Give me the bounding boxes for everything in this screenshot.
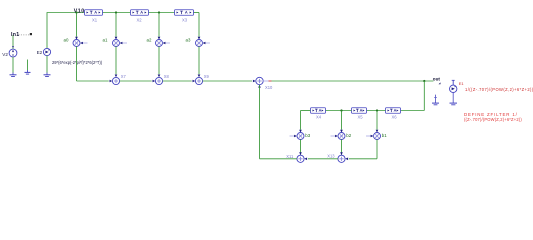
wire tap to multiplier a2	[158, 13, 160, 37]
summer X10	[253, 77, 272, 87]
svg-text:X7: X7	[121, 74, 127, 79]
svg-text:X2: X2	[137, 17, 143, 22]
value text of E2	[52, 60, 103, 65]
junction f1	[340, 109, 342, 111]
svg-text:X13: X13	[327, 153, 335, 158]
wire X8 to X9	[163, 80, 192, 82]
junction t3	[158, 11, 160, 13]
junction t1	[75, 11, 77, 13]
svg-text:a3: a3	[186, 38, 191, 43]
label X6	[392, 114, 398, 119]
svg-text:b1: b1	[382, 133, 387, 138]
label X5	[358, 114, 364, 119]
svg-text:X10: X10	[265, 85, 273, 90]
svg-text:X11: X11	[286, 154, 294, 159]
wire E2 to top rail	[46, 13, 48, 49]
svg-text:((Z-.707)/(POW(Z,2)+6*Z+2)): ((Z-.707)/(POW(Z,2)+6*Z+2))	[464, 117, 522, 122]
label X1	[92, 17, 98, 22]
label X2	[137, 17, 143, 22]
wire a0 to X7	[77, 47, 109, 82]
svg-text:X5: X5	[358, 114, 364, 119]
delay block X5	[352, 108, 367, 114]
wire a1 to X7 top	[115, 47, 117, 75]
ground near out	[432, 95, 439, 105]
wire tap to multiplier a1	[115, 13, 117, 37]
label b1	[382, 133, 387, 138]
svg-text:29*(6*exp(-2*pi*f)*2*6(2*T)): 29*(6*exp(-2*pi*f)*2*6(2*T))	[52, 60, 103, 65]
wire X11 to X10	[260, 85, 297, 159]
wire X4 to corner b3	[301, 111, 311, 130]
wire tap to b1	[376, 111, 378, 130]
svg-text:a2: a2	[147, 38, 152, 43]
wire tap to multiplier a0	[76, 13, 78, 37]
junction f2	[376, 109, 378, 111]
label V2	[2, 52, 8, 57]
wire X7 to X8	[120, 80, 152, 82]
net label out	[433, 76, 441, 84]
delay block X4	[311, 108, 326, 114]
ground below E1	[450, 93, 458, 105]
multiplier a1	[113, 37, 128, 47]
multiplier b1	[366, 130, 381, 140]
svg-text:In1: In1	[11, 32, 19, 38]
wire tap to b2	[341, 111, 343, 130]
text DEFINE ZFILTER	[464, 112, 522, 122]
multiplier a0	[73, 37, 88, 47]
summer X7	[110, 75, 120, 85]
delay block X2	[131, 10, 149, 16]
delay block X3	[175, 10, 194, 16]
label X3	[182, 17, 188, 22]
delay block X6	[386, 108, 401, 114]
wire X5 to X4	[326, 110, 352, 112]
wire X13 to X11	[308, 158, 338, 160]
label E2	[37, 50, 43, 55]
svg-text:X1: X1	[92, 17, 98, 22]
svg-text:X4: X4	[316, 114, 322, 119]
wire b3 to X11	[300, 140, 302, 155]
controlled source E2	[43, 48, 50, 55]
ground below V2	[10, 57, 17, 77]
junction feedback	[423, 80, 425, 82]
label b3	[305, 133, 310, 138]
summer X13	[338, 152, 348, 162]
summer X9	[193, 75, 203, 85]
wire X1 to X2	[103, 12, 131, 14]
controlled source E1	[450, 80, 457, 92]
wire X9 to X10	[203, 80, 252, 82]
top rail wire	[47, 12, 85, 14]
svg-text:X6: X6	[392, 114, 398, 119]
multiplier b2	[331, 130, 346, 140]
svg-text:E2: E2	[37, 50, 43, 55]
svg-text:b2: b2	[346, 133, 351, 138]
wire X2 to X3	[149, 12, 175, 14]
label b2	[346, 133, 351, 138]
label X8	[164, 74, 170, 79]
label X7	[121, 74, 127, 79]
svg-text:a0: a0	[64, 38, 69, 43]
net label V10	[74, 8, 85, 14]
value text of E1	[465, 87, 533, 92]
label X10	[265, 85, 273, 90]
voltage source V2	[9, 46, 17, 57]
label a2	[147, 38, 152, 43]
wire X3 to corner	[194, 12, 200, 14]
svg-text:X8: X8	[164, 74, 170, 79]
label X11	[286, 154, 294, 159]
wire a3 to X9 top	[198, 47, 200, 75]
delay block X1	[85, 10, 103, 16]
svg-text:out: out	[433, 76, 441, 81]
summer X8	[153, 75, 163, 85]
multiplier a2	[156, 37, 171, 47]
wire b2 to X13	[341, 140, 343, 155]
net label In1 with leader	[11, 32, 32, 38]
label X9	[204, 74, 210, 79]
multiplier a3	[196, 37, 211, 47]
ground below E2	[44, 56, 51, 77]
summer X11	[297, 152, 307, 162]
label E1	[459, 81, 465, 86]
wire out to X6	[401, 81, 425, 111]
output wire	[272, 80, 434, 82]
label a3	[186, 38, 191, 43]
svg-text:X9: X9	[204, 74, 210, 79]
wire from V2 to net In1	[12, 35, 14, 49]
wire a2 to X8 top	[158, 47, 160, 75]
svg-text:1/((Z-.707)/(POW(Z,2)+6*Z+2)): 1/((Z-.707)/(POW(Z,2)+6*Z+2))	[465, 87, 533, 92]
svg-text:V10: V10	[74, 8, 85, 14]
junction t2	[115, 11, 117, 13]
svg-text:b3: b3	[305, 133, 310, 138]
wire tap to multiplier a3	[198, 13, 200, 37]
ground 0V floating	[25, 60, 31, 75]
multiplier b3	[290, 130, 305, 140]
svg-text:E1: E1	[459, 81, 465, 86]
label X13	[327, 153, 335, 158]
svg-text:V2: V2	[2, 52, 8, 57]
svg-text:a1: a1	[103, 38, 108, 43]
svg-text:X3: X3	[182, 17, 188, 22]
label a0	[64, 38, 69, 43]
wire X6 to X5	[367, 110, 386, 112]
label a1	[103, 38, 108, 43]
label X4	[316, 114, 322, 119]
wire b1 to X13	[349, 140, 377, 159]
